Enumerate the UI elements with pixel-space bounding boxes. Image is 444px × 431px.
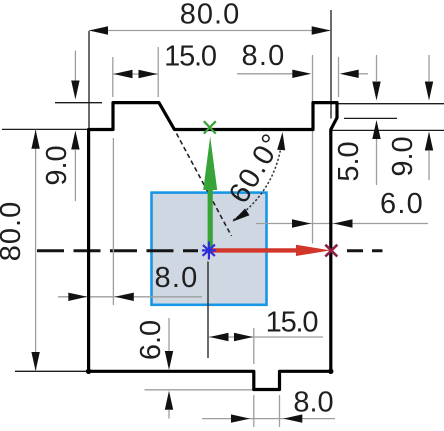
origin blue star bbox=[202, 242, 216, 260]
dimension 15.0 top line bbox=[114, 73, 158, 75]
dimension 15.0 bottom right arrow bbox=[234, 333, 253, 341]
centerline left segment bbox=[37, 249, 198, 252]
angular dimension 60.0 upper arrow bbox=[277, 132, 285, 150]
angular dimension 60.0 arc bbox=[233, 137, 282, 220]
dimension 8.0 mid arrow pointing right bbox=[68, 293, 87, 301]
dimension 6.0 right arrow pointing right bbox=[292, 219, 311, 227]
dimension 6.0 right line bbox=[256, 223, 428, 225]
svg-text:80.0: 80.0 bbox=[180, 0, 240, 30]
extension line x312.5 bbox=[312, 55, 314, 244]
svg-text:15.0: 15.0 bbox=[164, 41, 216, 73]
dimension 80.0 left down arrow bbox=[31, 352, 39, 371]
extension tick y102.7 top left bbox=[55, 102, 102, 104]
dimension 9.0 right up arrow bbox=[425, 132, 433, 151]
dimension 6.0 bottom line upper bbox=[168, 318, 170, 351]
dimension 9.0 left up arrow bbox=[71, 131, 79, 150]
dimension 8.0 bottom arrow pointing right bbox=[231, 414, 250, 422]
extension line y129.4 left bbox=[2, 128, 90, 130]
svg-text:15.0: 15.0 bbox=[266, 307, 318, 339]
extension line x331 right of top dim bbox=[330, 10, 332, 119]
dimension 6.0 bottom up arrow bbox=[165, 391, 173, 410]
dimension 8.0 top line right part bbox=[359, 73, 369, 75]
dimension 5.0 right line upper bbox=[376, 55, 378, 81]
Y axis green X marker bbox=[204, 121, 216, 133]
extension line x113.4 for dim 8.0 mid bbox=[112, 138, 114, 305]
dimension 9.0 left line lower bbox=[74, 150, 76, 201]
svg-text:8.0: 8.0 bbox=[242, 40, 286, 72]
dimension 15.0 bottom line bbox=[209, 336, 324, 338]
extension line x208 below origin bbox=[207, 262, 209, 359]
svg-text:6.0: 6.0 bbox=[135, 320, 167, 360]
sketch region fill (blue square) bbox=[152, 193, 267, 305]
svg-text:8.0: 8.0 bbox=[155, 262, 199, 294]
dimension 80.0 top line bbox=[89, 30, 331, 32]
centerline right segment bbox=[347, 249, 383, 252]
dimension 9.0 left down arrow bbox=[71, 81, 79, 100]
X axis end marker maroon X bbox=[325, 245, 337, 257]
extension line x253.8 lower for dim 8.0 bottom bbox=[253, 395, 255, 427]
dimension 8.0 top right arrow bbox=[340, 70, 359, 78]
dimension 15.0 bottom left arrow bbox=[210, 333, 229, 341]
svg-text:8.0: 8.0 bbox=[293, 387, 333, 419]
dimension 8.0 bottom arrow pointing left bbox=[283, 414, 302, 422]
extension line y130.4 right bbox=[332, 129, 444, 131]
dimension 8.0 top line left part bbox=[237, 73, 293, 75]
part profile outline bbox=[89, 103, 337, 390]
svg-text:9.0: 9.0 bbox=[387, 136, 419, 176]
svg-text:5.0: 5.0 bbox=[333, 141, 365, 181]
extension line x89 left of top dim bbox=[88, 31, 90, 135]
dimension 6.0 bottom down arrow bbox=[165, 351, 173, 370]
dimension 5.0 right down arrow bbox=[372, 82, 380, 101]
vertex dot bottom right bbox=[328, 369, 333, 374]
dimension 80.0 left up arrow bbox=[31, 130, 39, 149]
dimension 80.0 top right arrow bbox=[312, 26, 331, 34]
dimension 8.0 bottom line bbox=[202, 418, 335, 420]
dimension 9.0 right line lower bbox=[428, 151, 430, 180]
dimension 8.0 mid arrow pointing left bbox=[115, 293, 134, 301]
construction line 60deg bbox=[177, 134, 232, 237]
svg-text:9.0: 9.0 bbox=[41, 145, 73, 185]
dimension 6.0 bottom line lower bbox=[168, 410, 170, 419]
svg-text:6.0: 6.0 bbox=[380, 188, 424, 220]
extension line x112.8 for dim 15.0 top bbox=[112, 57, 114, 97]
dimension 15.0 top right arrow bbox=[139, 70, 158, 78]
vertex dot bottom left bbox=[86, 369, 91, 374]
X axis red arrow bbox=[211, 248, 298, 252]
dimension 5.0 right up arrow bbox=[372, 120, 380, 139]
extension line x338.5 for dim 8.0 top bbox=[338, 57, 340, 97]
dimension 9.0 right down arrow bbox=[425, 82, 433, 101]
dimension 15.0 top left arrow bbox=[114, 70, 133, 78]
dimension 80.0 left line bbox=[35, 130, 37, 371]
dimension 8.0 mid line bbox=[58, 296, 202, 298]
extension line x279.5 lower for dim 8.0 bottom bbox=[279, 395, 281, 427]
extension line y389.8 for dim 6.0 bottom bbox=[145, 389, 254, 391]
dimension 80.0 top left arrow bbox=[89, 26, 108, 34]
dimension 5.0 right line lower bbox=[376, 139, 378, 185]
dimension 8.0 top left arrow bbox=[292, 70, 311, 78]
angular dimension 60.0 lower arrow bbox=[232, 209, 249, 222]
dimension 9.0 left line upper bbox=[74, 51, 76, 83]
dimension 6.0 right arrow pointing left bbox=[334, 219, 353, 227]
extension line x158.2 for dim 15.0 top bbox=[157, 47, 159, 97]
extension line y118.4 right bbox=[344, 117, 397, 119]
dimension 9.0 right line upper bbox=[428, 55, 430, 81]
extension line x253.8 upper for dim 15.0 bottom bbox=[253, 328, 255, 364]
extension line y371.3 left bbox=[15, 370, 87, 372]
Y axis green arrow bbox=[208, 188, 213, 250]
extension line y103.7 right bbox=[338, 103, 444, 105]
svg-text:80.0: 80.0 bbox=[0, 201, 27, 261]
